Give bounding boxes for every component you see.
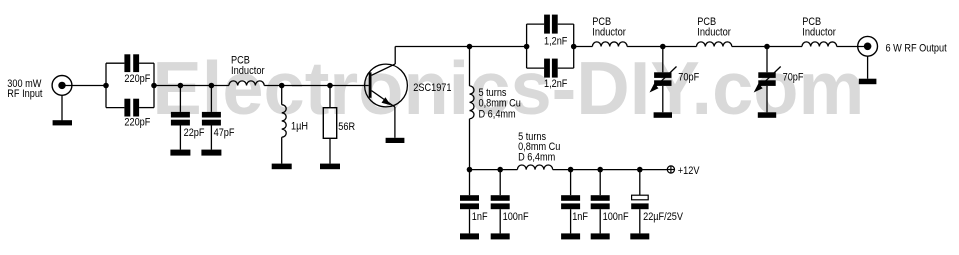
ground (C10) <box>591 233 610 239</box>
wire node B to L1 <box>154 85 229 87</box>
ground (C3) <box>170 150 190 156</box>
svg-text:220pF: 220pF <box>124 117 150 129</box>
wire supply rail right <box>553 169 668 171</box>
node L2 junction <box>279 83 285 89</box>
node C3 junction <box>178 83 184 89</box>
capacitor C9 1nF <box>561 170 580 234</box>
ground (C4) <box>201 150 221 156</box>
capacitor C11 22uF/25V electrolytic <box>631 170 648 234</box>
ground (CT1) <box>654 112 672 118</box>
wire L6 to output connector <box>837 46 868 48</box>
wire supply rail left <box>470 169 518 171</box>
+12V supply terminal <box>667 166 674 173</box>
inductor L2 1uH <box>282 86 287 164</box>
node C5/C6 right <box>571 44 577 50</box>
wire C5/C6 to L4 <box>574 46 593 48</box>
svg-text:22pF: 22pF <box>184 127 205 139</box>
svg-text:Inductor: Inductor <box>231 65 265 77</box>
wire L4 to L5 <box>627 46 696 48</box>
trimmer capacitor CT1 70pF <box>650 47 677 113</box>
svg-text:1nF: 1nF <box>472 211 488 223</box>
wire L5 to L6 <box>732 46 802 48</box>
svg-text:70pF: 70pF <box>678 71 699 83</box>
ground (L2) <box>272 164 292 170</box>
svg-text:1µH: 1µH <box>291 121 308 133</box>
svg-text:56R: 56R <box>338 121 355 133</box>
node C11 junction <box>637 167 643 173</box>
ground (C9) <box>561 233 580 239</box>
node C10 junction <box>597 167 603 173</box>
ground (C11) <box>630 233 649 239</box>
inductor L5 PCB inductor <box>697 42 732 47</box>
wire Q1 collector up <box>394 47 396 65</box>
svg-text:100nF: 100nF <box>503 211 529 223</box>
capacitor C5 1,2nF (top) <box>527 15 574 34</box>
svg-text:D 6,4mm: D 6,4mm <box>479 109 516 121</box>
wire C5/C6 right branch <box>573 24 575 68</box>
svg-text:100nF: 100nF <box>603 211 629 223</box>
wire collector to C5 left node <box>395 46 526 48</box>
inductor L4 PCB inductor <box>592 42 627 47</box>
inductor L1 PCB inductor <box>229 81 264 86</box>
wire C1/C2 right branch <box>153 63 155 107</box>
svg-text:220pF: 220pF <box>124 73 150 85</box>
capacitor C1 220pF (top) <box>106 54 154 72</box>
svg-text:Inductor: Inductor <box>697 26 731 38</box>
trimmer capacitor CT2 70pF <box>754 47 781 113</box>
transistor Q1 2SC1971 <box>365 64 408 107</box>
svg-text:1,2nF: 1,2nF <box>544 78 568 90</box>
node CT1 junction <box>660 44 666 50</box>
input connector J1 <box>52 76 72 96</box>
wire C1/C2 left branch <box>105 63 107 107</box>
capacitor C8 100nF <box>491 170 510 234</box>
node B <box>151 83 157 89</box>
node C7 junction <box>467 167 473 173</box>
svg-text:1,2nF: 1,2nF <box>544 35 568 47</box>
inductor L6 PCB inductor <box>802 42 837 47</box>
svg-text:47pF: 47pF <box>214 127 235 139</box>
svg-text:6 W RF Output: 6 W RF Output <box>886 42 947 54</box>
node C4 junction <box>209 83 215 89</box>
output connector J2 <box>858 36 878 56</box>
inductor L7 5 turns choke <box>517 165 552 170</box>
capacitor C6 1,2nF (bottom) <box>527 59 574 78</box>
svg-text:RF Input: RF Input <box>7 88 42 100</box>
node C9 junction <box>568 167 574 173</box>
capacitor C2 220pF (bottom) <box>106 99 154 117</box>
svg-text:22µF/25V: 22µF/25V <box>643 211 684 223</box>
svg-text:Inductor: Inductor <box>802 26 836 38</box>
node R1 junction <box>327 83 333 89</box>
ground (C7) <box>460 233 479 239</box>
svg-text:2SC1971: 2SC1971 <box>413 82 451 94</box>
capacitor C4 47pF <box>202 86 221 150</box>
node C8 junction <box>497 167 503 173</box>
svg-text:1nF: 1nF <box>572 211 588 223</box>
node L3 junction <box>467 44 473 50</box>
ground (output) <box>859 56 877 84</box>
resistor R1 56R <box>323 86 336 164</box>
svg-text:70pF: 70pF <box>783 71 804 83</box>
capacitor C10 100nF <box>591 170 610 234</box>
wire J1 to node A <box>62 85 106 87</box>
ground (input) <box>53 95 72 125</box>
node A <box>103 83 109 89</box>
wire L1 to base <box>264 85 369 87</box>
ground (C8) <box>491 233 510 239</box>
node C5/C6 left <box>524 44 530 50</box>
node CT2 junction <box>764 44 770 50</box>
wire C5/C6 left branch <box>526 24 528 68</box>
ground (R1) <box>320 164 340 170</box>
ground (CT2) <box>758 112 776 118</box>
wire Q1 emitter down <box>394 107 396 138</box>
svg-text:D 6,4mm: D 6,4mm <box>518 151 555 163</box>
capacitor C7 1nF <box>460 170 479 234</box>
svg-text:Inductor: Inductor <box>592 26 626 38</box>
ground (Q1 emitter) <box>386 138 405 143</box>
svg-text:+12V: +12V <box>678 165 700 177</box>
inductor L3 5 turns 0,8mm Cu D 6,4mm <box>470 47 475 170</box>
capacitor C3 22pF <box>171 86 190 150</box>
